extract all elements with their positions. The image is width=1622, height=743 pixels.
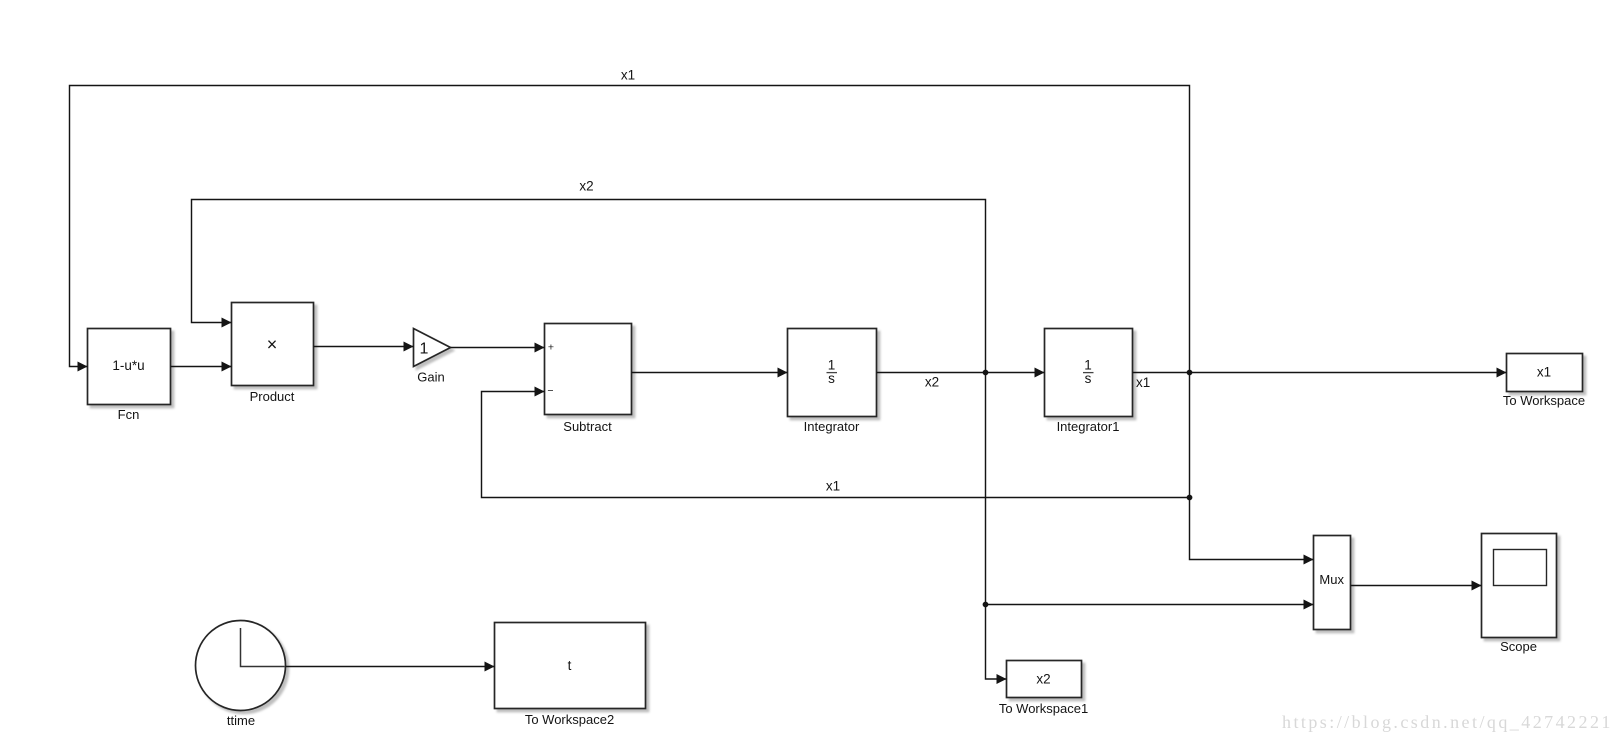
svg-text:Subtract: Subtract xyxy=(563,419,612,434)
svg-text:ttime: ttime xyxy=(227,713,255,728)
svg-text:+: + xyxy=(548,342,554,354)
svg-text:x2: x2 xyxy=(1036,672,1050,687)
svg-text:t: t xyxy=(568,658,572,673)
svg-text:https://blog.csdn.net/qq_42742: https://blog.csdn.net/qq_42742221 xyxy=(1282,712,1613,732)
svg-text:To Workspace2: To Workspace2 xyxy=(525,712,614,727)
svg-text:Integrator: Integrator xyxy=(804,419,860,434)
svg-text:s: s xyxy=(828,371,835,386)
svg-text:1: 1 xyxy=(420,341,429,358)
svg-text:Scope: Scope xyxy=(1500,639,1537,654)
svg-text:s: s xyxy=(1085,371,1092,386)
svg-text:x1: x1 xyxy=(1537,364,1551,379)
svg-text:To Workspace1: To Workspace1 xyxy=(999,701,1088,716)
svg-text:1-u*u: 1-u*u xyxy=(112,358,144,373)
svg-text:Mux: Mux xyxy=(1319,572,1344,587)
svg-text:x1: x1 xyxy=(1136,375,1150,390)
svg-text:Product: Product xyxy=(250,389,295,404)
svg-text:To Workspace: To Workspace xyxy=(1503,393,1585,408)
svg-text:x2: x2 xyxy=(925,375,939,390)
svg-text:Gain: Gain xyxy=(417,370,444,385)
svg-text:x1: x1 xyxy=(826,479,840,494)
svg-text:×: × xyxy=(267,334,278,354)
svg-text:Integrator1: Integrator1 xyxy=(1057,419,1120,434)
svg-text:x2: x2 xyxy=(579,179,593,194)
svg-text:x1: x1 xyxy=(621,67,635,82)
svg-text:Fcn: Fcn xyxy=(118,407,140,422)
svg-text:−: − xyxy=(547,385,553,397)
